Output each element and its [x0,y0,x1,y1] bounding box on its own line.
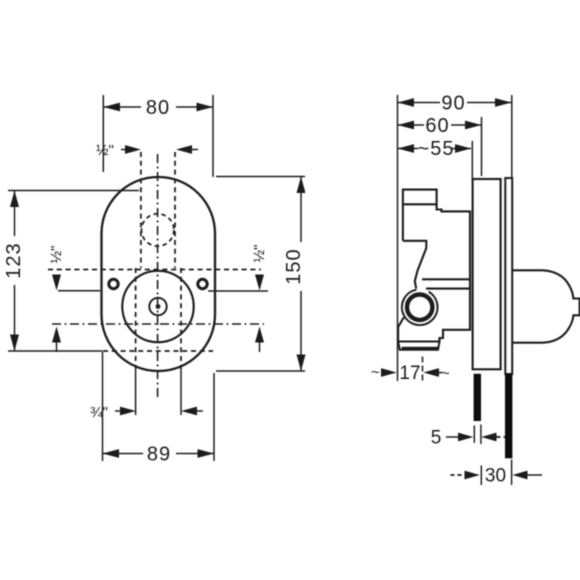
dim 55: dimension line [398,148,472,150]
side view: right outlet protrusion [513,270,580,342]
dim 150: bottom extension line [216,370,305,372]
dim 60: right arrow [465,121,482,130]
svg-text:~: ~ [441,365,450,382]
dim 55: right arrow [455,144,471,153]
dim 123: bottom arrow [10,335,19,352]
svg-text:30: 30 [485,466,506,487]
dim 89: left arrow [103,449,120,458]
svg-text:17: 17 [399,363,420,384]
front view: right screw hole [198,279,207,288]
dim 150: top extension line [216,176,305,178]
front view: bottom port hidden width line left [135,268,137,370]
dim 60: right extension line [481,117,483,176]
side view: common left extension line [397,95,399,381]
dim 30: left arrow (pointing right) [465,471,480,480]
dim 90: right arrow [495,98,512,107]
dim 55: right extension line [471,141,473,183]
svg-text:123: 123 [3,242,25,278]
dim half-inch top: left arrow [125,145,141,154]
front view: spindle center dot [156,304,161,309]
dim 123: dimension line [14,191,16,352]
dim half-inch left port: lower arrow (up) [52,327,61,343]
svg-text:80: 80 [146,97,170,119]
dim half-inch right port: lower tail [259,343,261,353]
dim 123: top arrow [10,191,19,208]
svg-text:60: 60 [425,115,449,137]
dim half-inch left port: upper arrow (down) [52,275,61,291]
svg-text:¾": ¾" [90,404,108,421]
front view: vertical centerline [157,154,159,400]
side view: tube lower wall [426,288,470,290]
front view: hidden body top edge (dashed) [48,269,261,271]
dim 90: right extension line [511,95,513,178]
svg-text:½": ½" [48,246,65,264]
front view: side port upper edge left stub [58,290,100,292]
dim 80: left arrow [103,103,120,112]
dim 30: left dashed leader [451,474,466,476]
front view: top port hidden width line left [140,152,142,268]
dim 5: pipe right extension [480,425,482,445]
dim 90: left arrow [398,98,415,107]
dim 5: left arrow (pointing right) [458,433,473,442]
front view: hidden body bottom edge (dashed) [103,350,213,352]
side view: thin wall plate [505,178,512,374]
front view: bottom port hidden width line right [180,268,182,370]
svg-text:½": ½" [251,245,268,263]
front view: top port hidden width line right [174,152,176,268]
dim half-inch top: leader left [121,149,126,151]
dim 55: left arrow [398,144,415,153]
front view: hidden top port circle (dashed) [142,214,174,246]
side view: tube upper wall [422,278,470,280]
dim 17: right leader [438,372,442,374]
dim 80: extension line left [102,95,104,172]
front view: side port upper edge right stub [208,290,268,292]
dim 89: right arrow [198,449,215,458]
dim 17: right extension line [422,357,424,382]
svg-text:~55: ~55 [418,138,455,160]
dim three-quarter inch bottom: left arrow [120,407,136,416]
dim half-inch right port: upper arrow (down) [255,275,264,291]
dim 30: right tail [528,474,543,476]
dim 5: leader line [446,436,459,438]
front view: cartridge circle [122,271,193,342]
side view: mounting foot outline [398,342,439,350]
svg-text:150: 150 [283,248,305,284]
dim three-quarter inch bottom: leader left [115,410,121,412]
dim half-inch top: right arrow [176,145,192,154]
dim 30: right extension line [511,460,513,486]
dim 80: right arrow [197,103,214,112]
dim 123: top extension line [8,190,139,192]
dim 5: right tail dash [497,436,506,438]
dim 30: left extension line [480,466,482,486]
side view: spindle tab bottom line [404,203,437,205]
svg-text:90: 90 [441,93,465,115]
dim 150: top arrow [297,177,306,194]
dim 89: left extension line [102,352,104,461]
dim 80: extension line right [212,95,214,177]
side view: right supply pipe (black) [505,374,512,459]
dim 17: left arrow [381,368,397,377]
dim 80: dimension line [103,106,213,108]
front view: spindle circle [149,298,166,315]
svg-text:5: 5 [431,428,442,449]
dim half-inch right port: lower arrow (up) [255,327,264,343]
dim three-quarter inch bottom: leader right [196,410,203,412]
dim 150: dimension line [300,177,302,372]
front view: left screw hole [109,279,118,288]
side view: mounting foot black strip [402,347,439,350]
dim 150: bottom arrow [297,355,306,372]
dim half-inch top: leader right [191,149,198,151]
side view: left supply pipe (black) [474,374,481,421]
dim 89: right extension line [213,373,215,461]
front view: oval escutcheon outline [102,177,216,371]
svg-text:89: 89 [147,444,171,466]
svg-text:½": ½" [96,142,114,159]
dim 90: dimension line [398,102,512,104]
dim 5: pipe left extension [473,426,475,444]
dim 17: right arrow [423,368,439,377]
dim 123: bottom extension line [8,350,103,352]
side view: body outline [398,190,470,342]
dim 30: right arrow (pointing left) [512,471,527,480]
dim 89: dimension line [103,453,215,455]
dim 5: right arrow (pointing left) [481,433,496,442]
dim 60: left arrow [398,121,415,130]
dim half-inch left port: lower tail [56,343,58,353]
front view: horizontal centerline (dash-dot) [52,323,264,325]
dim three-quarter inch bottom: right arrow [181,407,197,416]
side view: wall mounting plate [473,179,501,369]
side view: side port boss outline [402,290,438,325]
side view: side port inner ring [407,295,432,320]
dim 60: dimension line [398,124,482,126]
svg-text:~: ~ [371,364,380,381]
